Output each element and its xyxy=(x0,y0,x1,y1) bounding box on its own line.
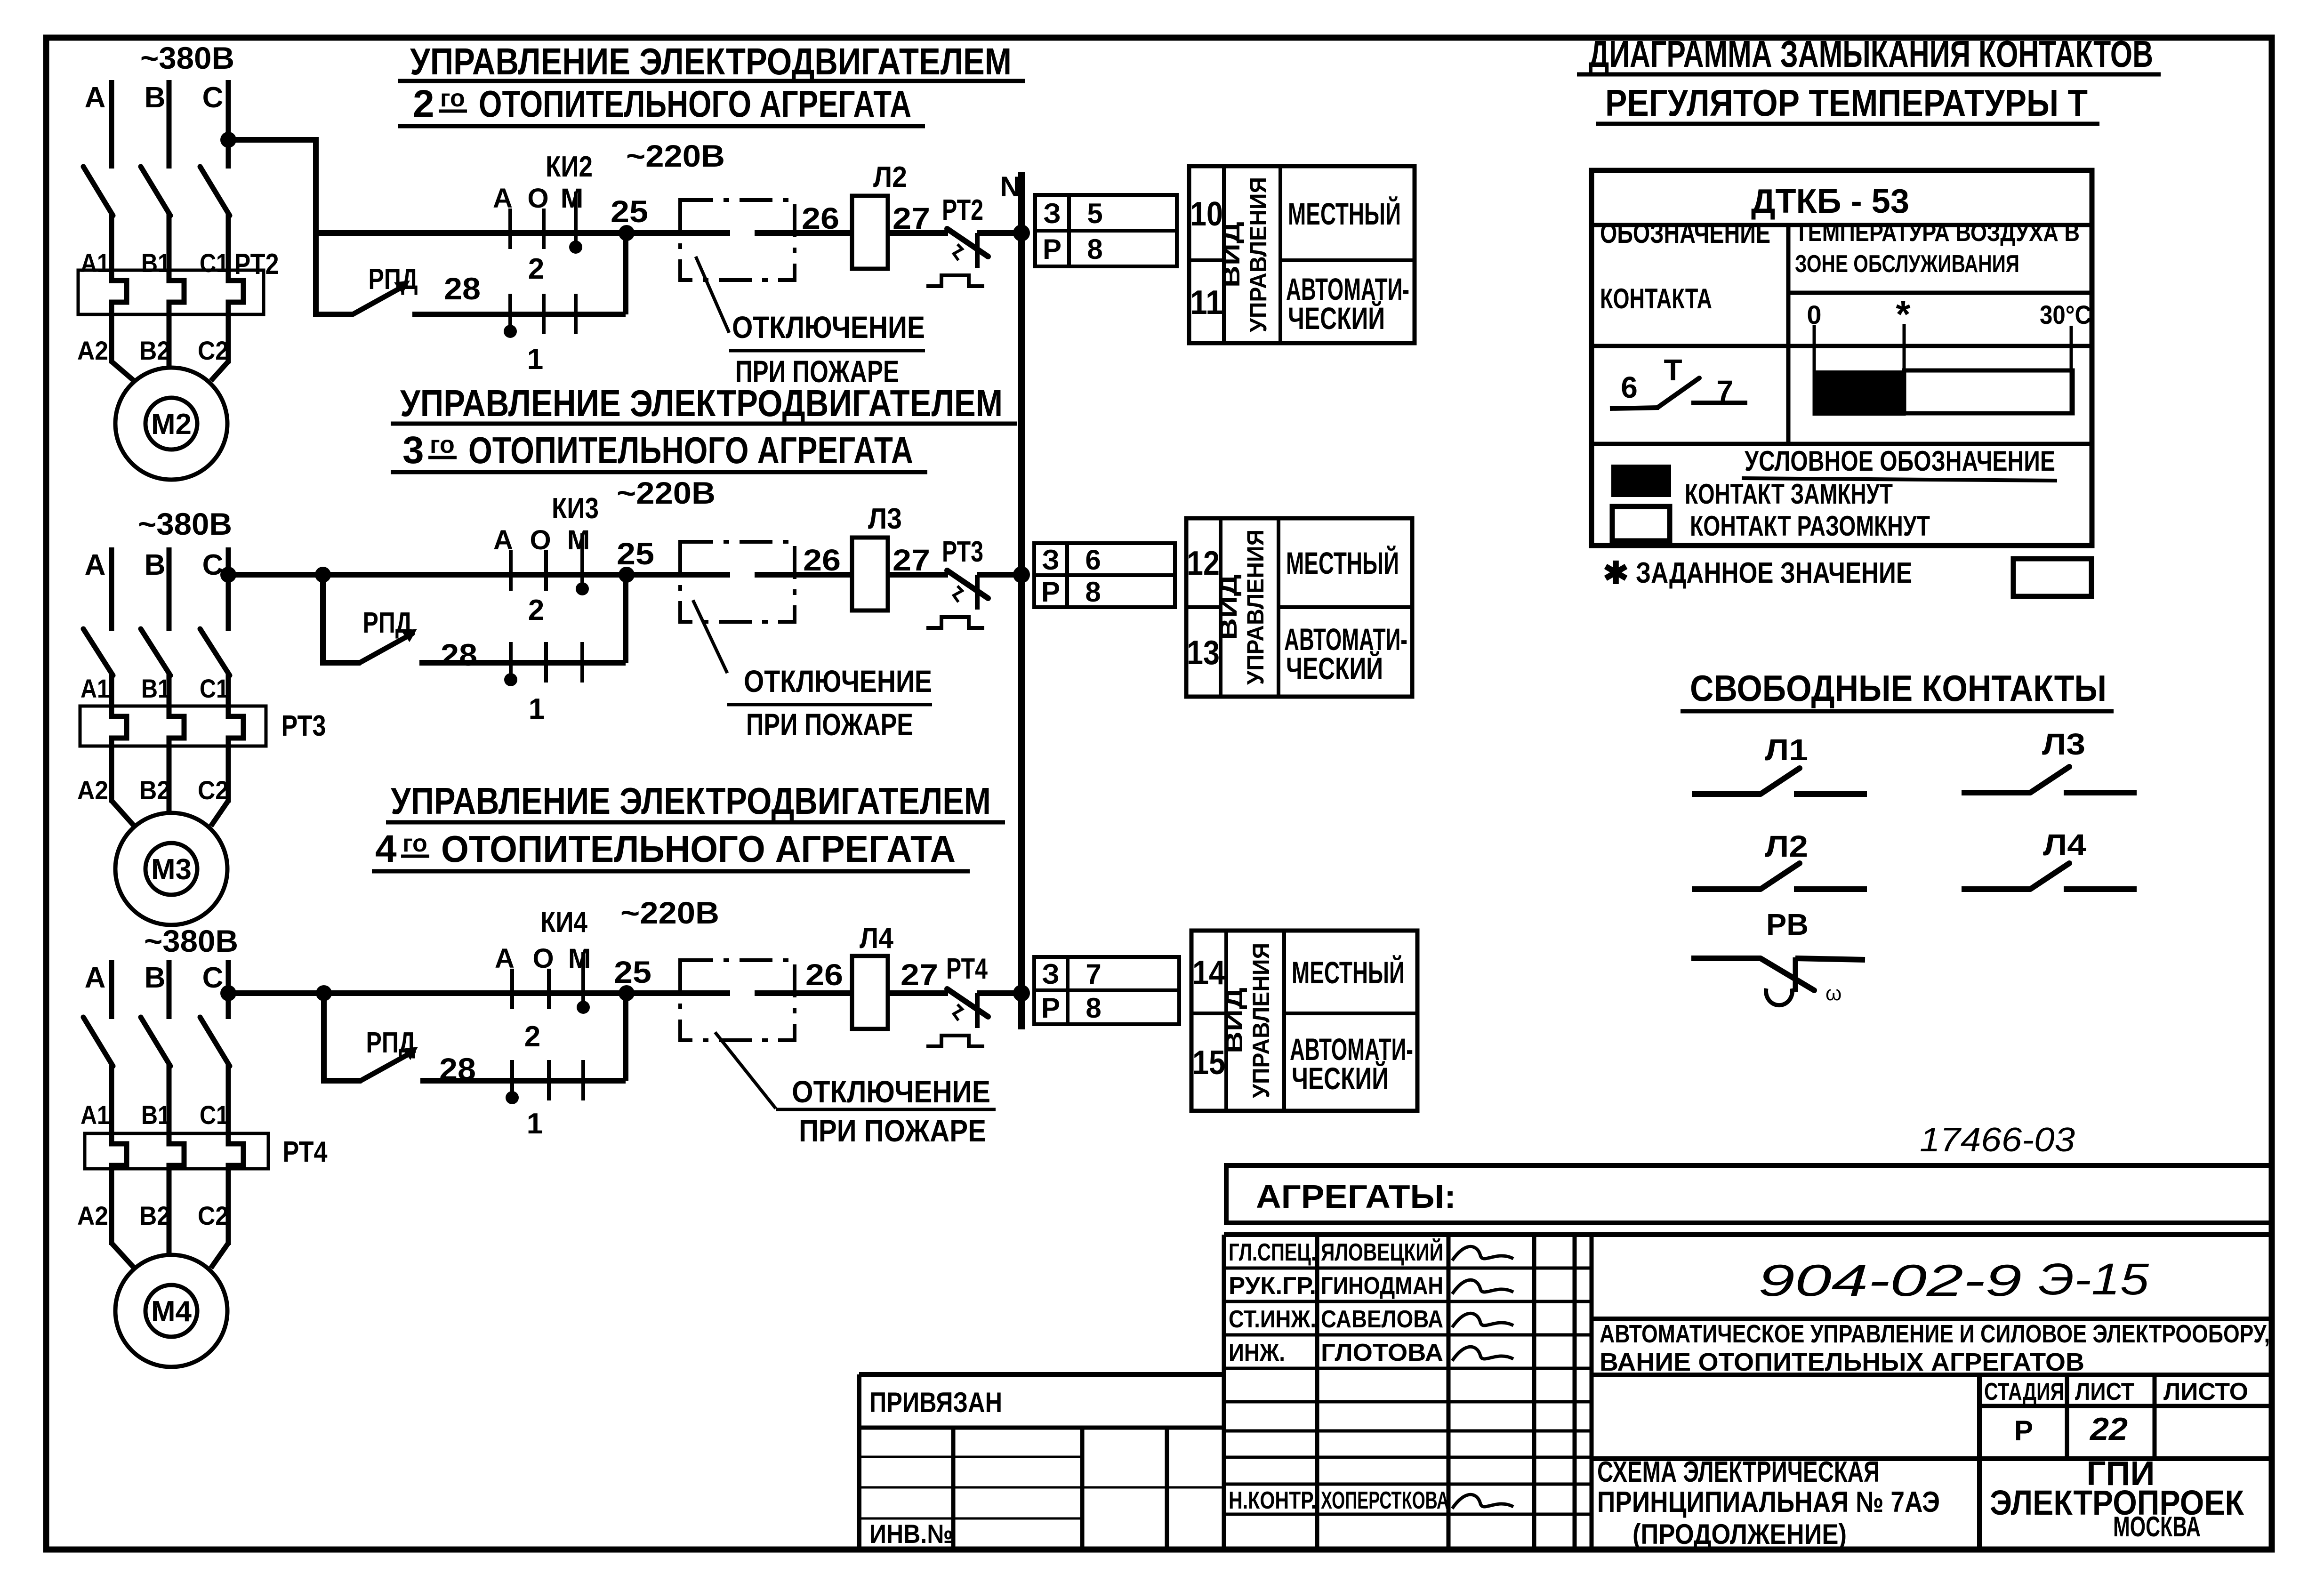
svg-text:МОСКВА: МОСКВА xyxy=(2113,1511,2201,1542)
svg-text:МЕСТНЫЙ: МЕСТНЫЙ xyxy=(1292,955,1405,990)
svg-text:МЕСТНЫЙ: МЕСТНЫЙ xyxy=(1286,545,1399,580)
svg-text:А: А xyxy=(495,943,515,974)
svg-text:В2: В2 xyxy=(139,1201,170,1230)
svg-text:КИ3: КИ3 xyxy=(552,492,599,525)
svg-text:РПД: РПД xyxy=(363,607,412,639)
svg-text:М3: М3 xyxy=(151,853,192,886)
svg-text:С2: С2 xyxy=(198,336,229,365)
svg-text:~220В: ~220В xyxy=(620,895,719,930)
svg-text:В: В xyxy=(145,962,166,994)
svg-text:30°С: 30°С xyxy=(2040,300,2091,329)
svg-text:Э-15: Э-15 xyxy=(2038,1254,2149,1304)
svg-text:УПРАВЛЕНИЯ: УПРАВЛЕНИЯ xyxy=(1248,943,1274,1098)
svg-text:22: 22 xyxy=(2089,1411,2128,1447)
svg-text:РТ3: РТ3 xyxy=(281,710,326,742)
svg-text:~380В: ~380В xyxy=(138,506,232,541)
svg-text:1: 1 xyxy=(529,693,545,725)
svg-text:17466-03: 17466-03 xyxy=(1920,1121,2075,1159)
svg-text:ДТКБ - 53: ДТКБ - 53 xyxy=(1751,183,1909,220)
svg-text:А2: А2 xyxy=(77,1201,108,1230)
svg-text:ИНЖ.: ИНЖ. xyxy=(1229,1339,1285,1366)
svg-text:С1: С1 xyxy=(200,248,229,278)
svg-text:28: 28 xyxy=(444,271,481,306)
svg-text:Т: Т xyxy=(1664,353,1682,387)
svg-text:15: 15 xyxy=(1192,1044,1225,1082)
svg-text:УПРАВЛЕНИЯ: УПРАВЛЕНИЯ xyxy=(1242,530,1269,685)
svg-text:РЕГУЛЯТОР ТЕМПЕРАТУРЫ Т: РЕГУЛЯТОР ТЕМПЕРАТУРЫ Т xyxy=(1605,82,2088,124)
svg-text:ЗОНЕ ОБСЛУЖИВАНИЯ: ЗОНЕ ОБСЛУЖИВАНИЯ xyxy=(1795,250,2019,278)
svg-text:Р: Р xyxy=(1041,992,1060,1024)
svg-text:ВАНИЕ ОТОПИТЕЛЬНЫХ АГРЕГАТОВ: ВАНИЕ ОТОПИТЕЛЬНЫХ АГРЕГАТОВ xyxy=(1600,1348,2084,1376)
svg-text:А: А xyxy=(493,183,513,214)
svg-text:5: 5 xyxy=(1087,198,1102,229)
svg-text:13: 13 xyxy=(1187,634,1220,672)
svg-text:ОТКЛЮЧЕНИЕ: ОТКЛЮЧЕНИЕ xyxy=(792,1074,990,1109)
svg-text:РТ2: РТ2 xyxy=(234,248,279,281)
svg-text:ЯЛОВЕЦКИЙ: ЯЛОВЕЦКИЙ xyxy=(1321,1238,1443,1266)
svg-text:В1: В1 xyxy=(141,248,170,278)
svg-text:В1: В1 xyxy=(141,1100,170,1130)
svg-text:РПД: РПД xyxy=(366,1027,416,1059)
svg-text:А: А xyxy=(85,81,106,114)
svg-text:В: В xyxy=(145,549,166,581)
svg-text:КИ4: КИ4 xyxy=(540,906,587,939)
svg-text:РПД: РПД xyxy=(369,263,418,296)
svg-text:ЗАДАННОЕ ЗНАЧЕНИЕ: ЗАДАННОЕ ЗНАЧЕНИЕ xyxy=(1636,557,1912,589)
svg-text:Л3: Л3 xyxy=(2042,727,2085,761)
svg-text:7: 7 xyxy=(1086,958,1101,990)
svg-text:А: А xyxy=(85,962,106,994)
svg-text:~220В: ~220В xyxy=(617,475,716,510)
svg-text:М4: М4 xyxy=(151,1295,192,1328)
svg-text:ЛИСТ: ЛИСТ xyxy=(2075,1378,2134,1405)
svg-text:14: 14 xyxy=(1192,954,1225,992)
svg-text:РТ4: РТ4 xyxy=(283,1136,328,1168)
svg-text:СТ.ИНЖ.: СТ.ИНЖ. xyxy=(1229,1306,1316,1333)
svg-text:М: М xyxy=(561,183,583,214)
svg-text:ЧЕСКИЙ: ЧЕСКИЙ xyxy=(1286,650,1383,686)
svg-text:3: 3 xyxy=(402,429,424,472)
svg-text:2: 2 xyxy=(524,1020,540,1053)
svg-text:РТ3: РТ3 xyxy=(942,536,983,568)
svg-text:ПРИВЯЗАН: ПРИВЯЗАН xyxy=(869,1387,1002,1418)
svg-text:М: М xyxy=(568,943,591,974)
svg-text:УПРАВЛЕНИЯ: УПРАВЛЕНИЯ xyxy=(1245,177,1271,332)
svg-text:КОНТАКТ ЗАМКНУТ: КОНТАКТ ЗАМКНУТ xyxy=(1685,478,1893,510)
svg-text:1: 1 xyxy=(527,343,543,376)
svg-text:го: го xyxy=(430,431,455,458)
svg-text:25: 25 xyxy=(611,194,648,229)
svg-text:КОНТАКТА: КОНТАКТА xyxy=(1600,283,1712,314)
svg-text:РУК.ГР.: РУК.ГР. xyxy=(1229,1272,1316,1300)
svg-text:А: А xyxy=(493,525,513,555)
svg-text:2: 2 xyxy=(413,82,434,125)
svg-text:25: 25 xyxy=(617,536,654,571)
svg-text:~380В: ~380В xyxy=(144,923,238,958)
svg-text:8: 8 xyxy=(1085,576,1101,608)
svg-text:ОБОЗНАЧЕНИЕ: ОБОЗНАЧЕНИЕ xyxy=(1600,217,1770,249)
svg-text:Л4: Л4 xyxy=(2043,828,2086,862)
svg-text:Л4: Л4 xyxy=(860,922,893,955)
svg-text:4: 4 xyxy=(375,827,397,870)
svg-text:С: С xyxy=(202,549,224,581)
svg-text:го: го xyxy=(440,85,465,112)
svg-text:2: 2 xyxy=(528,253,544,285)
svg-text:ПРИ ПОЖАРЕ: ПРИ ПОЖАРЕ xyxy=(746,707,913,742)
svg-text:ПРИ ПОЖАРЕ: ПРИ ПОЖАРЕ xyxy=(799,1113,986,1148)
svg-text:М: М xyxy=(567,525,590,555)
svg-text:ВИД: ВИД xyxy=(1215,574,1242,640)
svg-text:1: 1 xyxy=(527,1108,543,1140)
svg-text:ВИД: ВИД xyxy=(1218,222,1245,288)
svg-text:2: 2 xyxy=(528,594,544,626)
svg-text:26: 26 xyxy=(802,201,839,235)
svg-text:КИ2: КИ2 xyxy=(546,151,593,183)
svg-text:РВ: РВ xyxy=(1766,907,1809,941)
svg-text:Л3: Л3 xyxy=(868,503,902,535)
svg-text:11: 11 xyxy=(1190,284,1223,321)
svg-text:ГИНОДМАН: ГИНОДМАН xyxy=(1321,1272,1443,1300)
svg-text:26: 26 xyxy=(805,958,843,992)
svg-text:РТ4: РТ4 xyxy=(946,953,988,985)
svg-text:А1: А1 xyxy=(80,674,110,703)
svg-text:ОТОПИТЕЛЬНОГО АГРЕГАТА: ОТОПИТЕЛЬНОГО АГРЕГАТА xyxy=(479,83,911,125)
svg-text:СТАДИЯ: СТАДИЯ xyxy=(1984,1378,2064,1405)
svg-text:ДИАГРАММА ЗАМЫКАНИЯ КОНТАКТОВ: ДИАГРАММА ЗАМЫКАНИЯ КОНТАКТОВ xyxy=(1589,33,2153,75)
svg-text:6: 6 xyxy=(1621,370,1638,404)
svg-text:СВОБОДНЫЕ КОНТАКТЫ: СВОБОДНЫЕ КОНТАКТЫ xyxy=(1690,667,2107,709)
svg-text:26: 26 xyxy=(803,543,841,577)
svg-text:25: 25 xyxy=(614,955,651,989)
svg-text:28: 28 xyxy=(439,1052,476,1086)
svg-text:904-02-9: 904-02-9 xyxy=(1758,1256,2022,1306)
svg-text:27: 27 xyxy=(901,958,938,992)
svg-text:Р: Р xyxy=(2014,1415,2033,1446)
svg-text:го: го xyxy=(402,830,427,857)
svg-text:ОТКЛЮЧЕНИЕ: ОТКЛЮЧЕНИЕ xyxy=(732,310,925,345)
svg-text:Р: Р xyxy=(1041,576,1060,608)
svg-text:А1: А1 xyxy=(80,1100,110,1130)
svg-text:З: З xyxy=(1042,544,1060,576)
svg-text:СХЕМА ЭЛЕКТРИЧЕСКАЯ: СХЕМА ЭЛЕКТРИЧЕСКАЯ xyxy=(1597,1456,1880,1488)
svg-text:МЕСТНЫЙ: МЕСТНЫЙ xyxy=(1288,196,1401,231)
svg-text:З: З xyxy=(1043,198,1061,229)
svg-text:САВЕЛОВА: САВЕЛОВА xyxy=(1321,1306,1443,1333)
svg-text:ТЕМПЕРАТУРА ВОЗДУХА В: ТЕМПЕРАТУРА ВОЗДУХА В xyxy=(1795,219,2080,247)
svg-text:АГРЕГАТЫ:: АГРЕГАТЫ: xyxy=(1256,1178,1456,1215)
svg-text:В2: В2 xyxy=(139,775,170,805)
svg-text:В2: В2 xyxy=(139,336,170,365)
svg-text:С2: С2 xyxy=(198,1201,229,1230)
svg-text:В: В xyxy=(145,81,166,114)
svg-text:~220В: ~220В xyxy=(626,138,725,173)
svg-text:28: 28 xyxy=(441,637,477,672)
svg-text:Р: Р xyxy=(1043,233,1061,265)
svg-text:ЧЕСКИЙ: ЧЕСКИЙ xyxy=(1292,1060,1389,1096)
svg-text:ОТОПИТЕЛЬНОГО АГРЕГАТА: ОТОПИТЕЛЬНОГО АГРЕГАТА xyxy=(468,429,913,471)
svg-text:8: 8 xyxy=(1086,992,1101,1024)
svg-text:Л2: Л2 xyxy=(873,161,907,193)
svg-text:С1: С1 xyxy=(200,674,229,703)
svg-text:С2: С2 xyxy=(198,775,229,805)
svg-text:КОНТАКТ РАЗОМКНУТ: КОНТАКТ РАЗОМКНУТ xyxy=(1690,510,1930,542)
svg-text:З: З xyxy=(1042,958,1060,990)
svg-text:РТ2: РТ2 xyxy=(942,194,983,226)
svg-text:УПРАВЛЕНИЕ ЭЛЕКТРОДВИГАТЕЛЕМ: УПРАВЛЕНИЕ ЭЛЕКТРОДВИГАТЕЛЕМ xyxy=(400,382,1003,424)
svg-text:ГЛ.СПЕЦ.: ГЛ.СПЕЦ. xyxy=(1229,1239,1316,1266)
svg-text:ИНВ.№: ИНВ.№ xyxy=(869,1519,953,1549)
svg-text:М2: М2 xyxy=(151,408,192,441)
svg-text:А2: А2 xyxy=(77,336,108,365)
svg-text:(ПРОДОЛЖЕНИЕ): (ПРОДОЛЖЕНИЕ) xyxy=(1632,1518,1847,1550)
svg-text:ГЛОТОВА: ГЛОТОВА xyxy=(1321,1339,1443,1366)
svg-text:О: О xyxy=(527,183,548,214)
svg-text:О: О xyxy=(532,943,554,974)
svg-text:ЛИСТО: ЛИСТО xyxy=(2163,1378,2248,1405)
svg-text:ВИД: ВИД xyxy=(1221,988,1247,1053)
svg-text:ОТКЛЮЧЕНИЕ: ОТКЛЮЧЕНИЕ xyxy=(744,664,932,699)
svg-text:А: А xyxy=(85,549,106,581)
svg-text:В1: В1 xyxy=(141,674,170,703)
svg-text:ОТОПИТЕЛЬНОГО АГРЕГАТА: ОТОПИТЕЛЬНОГО АГРЕГАТА xyxy=(441,828,956,870)
svg-text:✱: ✱ xyxy=(1603,555,1629,590)
svg-text:8: 8 xyxy=(1087,233,1102,265)
svg-text:ХОПЕРСТКОВА: ХОПЕРСТКОВА xyxy=(1321,1487,1449,1514)
svg-text:УСЛОВНОЕ ОБОЗНАЧЕНИЕ: УСЛОВНОЕ ОБОЗНАЧЕНИЕ xyxy=(1745,445,2055,477)
svg-text:С1: С1 xyxy=(200,1100,229,1130)
svg-text:Л1: Л1 xyxy=(1765,733,1808,767)
svg-text:С: С xyxy=(202,962,224,994)
svg-text:О: О xyxy=(530,525,551,555)
svg-text:АВТОМАТИЧЕСКОЕ УПРАВЛЕНИЕ И СИ: АВТОМАТИЧЕСКОЕ УПРАВЛЕНИЕ И СИЛОВОЕ ЭЛЕК… xyxy=(1600,1320,2270,1348)
svg-text:N: N xyxy=(1000,171,1020,202)
svg-text:6: 6 xyxy=(1085,544,1101,576)
svg-text:УПРАВЛЕНИЕ ЭЛЕКТРОДВИГАТЕЛЕМ: УПРАВЛЕНИЕ ЭЛЕКТРОДВИГАТЕЛЕМ xyxy=(391,780,991,822)
svg-text:Л2: Л2 xyxy=(1765,829,1808,863)
svg-text:~380В: ~380В xyxy=(140,40,234,75)
svg-text:ЧЕСКИЙ: ЧЕСКИЙ xyxy=(1288,300,1385,336)
svg-text:УПРАВЛЕНИЕ ЭЛЕКТРОДВИГАТЕЛЕМ: УПРАВЛЕНИЕ ЭЛЕКТРОДВИГАТЕЛЕМ xyxy=(410,40,1012,82)
svg-text:ПРИНЦИПИАЛЬНАЯ № 7АЭ: ПРИНЦИПИАЛЬНАЯ № 7АЭ xyxy=(1597,1486,1940,1518)
svg-text:А2: А2 xyxy=(77,775,108,805)
svg-text:Н.КОНТР.: Н.КОНТР. xyxy=(1229,1487,1316,1514)
svg-text:С: С xyxy=(202,81,224,114)
svg-text:ω: ω xyxy=(1825,982,1842,1005)
svg-text:12: 12 xyxy=(1187,545,1220,582)
svg-text:А1: А1 xyxy=(80,248,110,278)
